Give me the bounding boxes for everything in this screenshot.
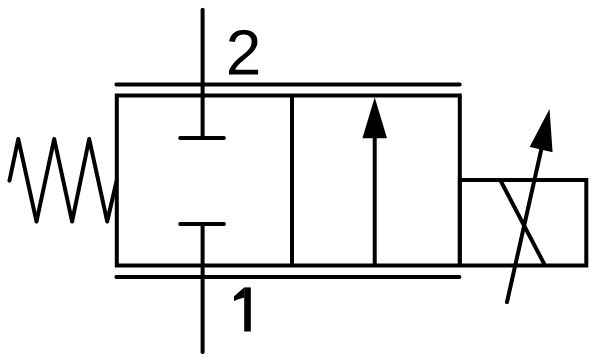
svg-text:2: 2 (226, 17, 262, 89)
